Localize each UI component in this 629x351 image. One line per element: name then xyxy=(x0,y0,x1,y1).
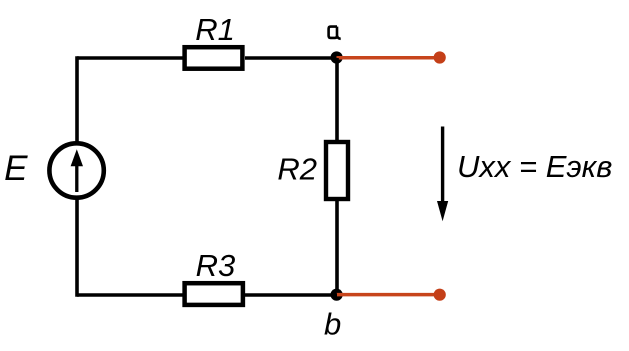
node a xyxy=(331,51,343,63)
wire: R1 to node a xyxy=(245,56,337,60)
wire: node a down to R2 xyxy=(335,58,339,141)
wire: red open-circuit lead from node b xyxy=(337,293,440,297)
svg-text:Uxx = Eэкв: Uxx = Eэкв xyxy=(457,149,612,184)
wire: red open-circuit lead from node a xyxy=(337,56,440,60)
wire: R3 to node b xyxy=(244,293,337,297)
terminal dot (red) at right of node b xyxy=(434,289,446,301)
label Uxx = Eэкв xyxy=(457,149,612,184)
arrow inside source pointing up xyxy=(71,149,83,192)
svg-text:R2: R2 xyxy=(277,152,317,187)
svg-text:R1: R1 xyxy=(195,12,235,47)
wire: left branch bottom (source to bottom wire) xyxy=(75,198,79,297)
terminal dot (red) at right of node a xyxy=(434,51,446,63)
wire: R2 down to node b xyxy=(335,199,339,295)
label a (single-storey upright glyph) xyxy=(329,27,341,39)
label R3 xyxy=(196,248,236,283)
label R2 xyxy=(277,152,317,187)
wire: top-left horizontal from source branch to R1 xyxy=(77,56,184,60)
label b xyxy=(324,307,341,342)
svg-text:E: E xyxy=(4,149,28,188)
wire: left branch top (node to source) xyxy=(75,56,79,143)
label E xyxy=(4,149,28,188)
node b xyxy=(331,289,343,301)
svg-text:b: b xyxy=(324,307,341,342)
resistor R1 xyxy=(185,47,243,68)
wire: bottom-left horizontal from source branch to R3 xyxy=(77,293,186,297)
resistor R3 xyxy=(185,283,243,305)
label R1 xyxy=(195,12,235,47)
voltage source E (circle) xyxy=(49,143,103,197)
resistor R2 xyxy=(326,142,348,199)
svg-text:R3: R3 xyxy=(196,248,236,283)
arrow: Uxx direction (down) xyxy=(437,127,448,222)
